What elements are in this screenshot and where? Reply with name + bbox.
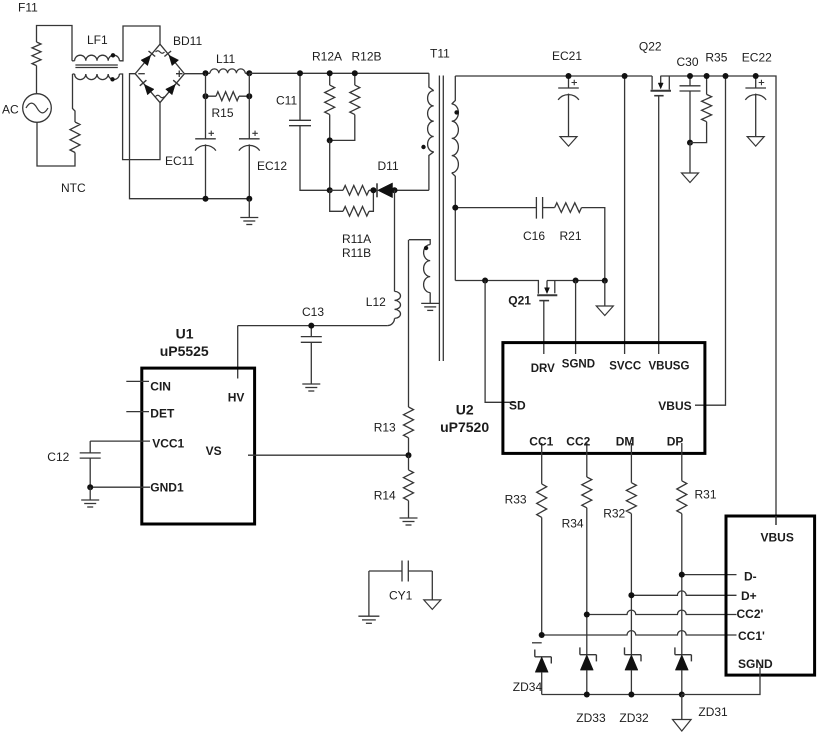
junction: [584, 692, 590, 698]
U2 pin DP: [681, 443, 683, 481]
wire Q21 rail: [455, 281, 538, 294]
svg-text:ZD32: ZD32: [619, 711, 649, 725]
svg-text:EC11: EC11: [165, 154, 194, 168]
ground (arrow) CY1: [431, 571, 433, 600]
svg-text:BD11: BD11: [173, 34, 202, 48]
AC source: [23, 94, 52, 123]
wire DC rail: [249, 72, 429, 74]
ground (earth) U1: [89, 487, 91, 500]
capacitor EC21: [568, 76, 570, 88]
resistor R21: [555, 203, 582, 213]
wire secondary rail: [455, 75, 652, 77]
junction: [327, 70, 333, 76]
junction: [679, 692, 685, 698]
capacitor EC12: [248, 73, 250, 139]
resistor R31: [677, 481, 687, 514]
svg-text:EC21: EC21: [552, 49, 582, 63]
transistor Q21: [546, 281, 548, 288]
svg-text:VCC1: VCC1: [152, 437, 184, 451]
wire SGND: [575, 281, 577, 355]
svg-text:Q21: Q21: [508, 294, 531, 308]
svg-text:VS: VS: [206, 444, 222, 458]
svg-text:U2: U2: [456, 401, 474, 417]
U2 pin CC1: [541, 443, 543, 484]
svg-text:uP7520: uP7520: [440, 419, 489, 435]
junction: [406, 452, 412, 458]
svg-text:R13: R13: [374, 421, 396, 435]
inductor L11: [206, 72, 211, 74]
svg-text:uP5525: uP5525: [160, 343, 209, 359]
svg-text:C11: C11: [276, 94, 297, 108]
resistor R15: [216, 92, 239, 101]
svg-text:R15: R15: [212, 106, 234, 120]
junction: [246, 196, 252, 202]
bridge rectifier BD11: [135, 44, 184, 102]
svg-text:C30: C30: [677, 55, 699, 69]
junction: [723, 73, 729, 79]
wire SGND return: [682, 667, 760, 695]
svg-text:DM: DM: [616, 435, 635, 449]
wire: [37, 122, 75, 166]
svg-text:R12B: R12B: [352, 50, 382, 64]
wire D-: [682, 574, 737, 576]
wire CC2': [587, 610, 737, 614]
wire: [184, 73, 205, 75]
svg-text:C16: C16: [523, 229, 545, 243]
resistor R11A: [330, 189, 343, 191]
wire SVCC: [624, 76, 626, 354]
svg-text:EC12: EC12: [257, 159, 287, 173]
svg-text:C13: C13: [302, 305, 324, 319]
capacitor C30: [689, 76, 691, 86]
connector pin VBUS: [775, 516, 777, 525]
resistor R32: [626, 483, 636, 514]
svg-text:R14: R14: [374, 488, 396, 502]
capacitor C12: [89, 441, 91, 453]
junction: [584, 612, 590, 618]
capacitor CY1: [369, 570, 432, 572]
svg-text:R31: R31: [695, 488, 717, 502]
svg-text:CC1': CC1': [738, 629, 765, 643]
capacitor C16: [536, 197, 542, 219]
inductor L12: [394, 190, 396, 291]
wire CC1': [542, 631, 737, 635]
resistor R33: [537, 484, 547, 518]
junction: [687, 140, 693, 146]
op-amp U2 uP7520 box: [503, 343, 705, 454]
junction: [704, 73, 710, 79]
wire: [36, 66, 38, 94]
wire: [238, 325, 388, 327]
capacitor EC22: [755, 76, 757, 88]
wire Q21 right: [547, 280, 605, 282]
svg-text:R34: R34: [562, 517, 584, 531]
junction: [370, 187, 376, 193]
svg-text:GND1: GND1: [150, 481, 184, 495]
svg-text:EC22: EC22: [742, 50, 772, 64]
svg-text:L12: L12: [366, 295, 386, 309]
capacitor C13: [310, 326, 312, 337]
svg-text:R21: R21: [560, 229, 582, 243]
junction: [246, 93, 252, 99]
svg-text:R12A: R12A: [312, 50, 342, 64]
junction: [392, 187, 398, 193]
svg-text:SGND: SGND: [562, 359, 595, 371]
svg-text:SD: SD: [509, 399, 526, 413]
thermistor NTC: [70, 122, 80, 153]
junction: [327, 137, 333, 143]
resistor R14: [408, 455, 410, 470]
junction: [753, 73, 759, 79]
svg-text:R35: R35: [705, 50, 727, 64]
resistor R35: [706, 76, 708, 94]
zener diode ZD31: [675, 654, 692, 656]
junction: [687, 73, 693, 79]
wire output rail: [660, 76, 776, 525]
capacitor C11: [299, 73, 301, 120]
svg-text:NTC: NTC: [61, 181, 86, 195]
svg-text:SGND: SGND: [738, 657, 773, 671]
svg-text:ZD31: ZD31: [698, 705, 728, 719]
resistor R34: [582, 477, 592, 508]
junction: [539, 632, 545, 638]
svg-text:CC2': CC2': [737, 607, 764, 621]
svg-text:CC2: CC2: [566, 435, 590, 449]
svg-text:R32: R32: [603, 507, 625, 521]
wire VBUS sense: [695, 76, 726, 405]
junction: [203, 196, 209, 202]
ground (arrow) output: [681, 695, 683, 720]
junction: [679, 572, 685, 578]
zener diode ZD32: [625, 654, 642, 656]
wire zener rail: [542, 694, 682, 696]
capacitor EC11: [205, 73, 207, 139]
op-amp U1 uP5525 box: [142, 368, 255, 524]
diode D11: [376, 183, 378, 197]
svg-text:R33: R33: [505, 493, 527, 507]
junction: [203, 70, 209, 76]
svg-text:AC: AC: [2, 103, 19, 117]
junction: [308, 323, 314, 329]
svg-text:VBUS: VBUS: [761, 531, 794, 545]
transformer T11 secondary winding: [452, 76, 456, 104]
svg-text:ZD33: ZD33: [576, 711, 606, 725]
svg-text:VBUSG: VBUSG: [649, 361, 690, 373]
svg-text:DET: DET: [150, 407, 175, 421]
transistor Q22: [651, 76, 653, 90]
connector box: [726, 516, 815, 675]
U1 pin VCC1: [90, 440, 150, 442]
junction: [628, 592, 634, 598]
fuse F11: [32, 42, 41, 66]
wire: [130, 74, 251, 199]
ground (earth) R14: [400, 517, 418, 519]
junction: [327, 187, 333, 193]
junction: [297, 70, 303, 76]
resistor R11B: [330, 190, 343, 211]
transformer T11 auxiliary winding: [409, 240, 430, 245]
svg-text:CC1: CC1: [529, 435, 553, 449]
junction: [203, 93, 209, 99]
wire SD: [485, 281, 515, 403]
svg-text:VBUS: VBUS: [658, 399, 691, 413]
junction: [566, 73, 572, 79]
junction: [452, 205, 458, 211]
svg-text:D11: D11: [378, 159, 399, 173]
junction: [246, 70, 252, 76]
resistor R12B: [354, 73, 356, 85]
ground (arrow) C30: [689, 143, 691, 173]
U1 pin GND1: [90, 486, 150, 488]
U2 pin DM: [630, 443, 632, 483]
zener diode ZD34: [532, 642, 542, 644]
transformer T11 primary winding: [429, 73, 434, 90]
resistor R12A: [329, 73, 331, 85]
svg-text:Q22: Q22: [639, 39, 662, 53]
junction: [573, 278, 579, 284]
zener diode ZD33: [580, 654, 597, 656]
svg-text:LF1: LF1: [87, 33, 108, 47]
U2 pin CC2: [586, 443, 588, 477]
svg-text:DRV: DRV: [531, 363, 555, 375]
svg-text:CY1: CY1: [389, 589, 413, 603]
svg-text:D+: D+: [741, 589, 757, 603]
wire D+: [631, 591, 736, 595]
svg-text:U1: U1: [176, 326, 194, 342]
wire snubber: [455, 207, 536, 209]
svg-text:HV: HV: [228, 391, 245, 405]
junction: [602, 278, 608, 284]
svg-text:CIN: CIN: [150, 380, 171, 394]
wire: [37, 26, 73, 61]
U1 pin VS: [248, 454, 409, 456]
junction: [87, 484, 93, 490]
common-mode choke LF1: [72, 60, 75, 62]
ground (earth) CY1: [368, 571, 370, 616]
svg-text:R11B: R11B: [342, 246, 371, 260]
svg-text:L11: L11: [216, 52, 235, 66]
junction: [622, 73, 628, 79]
junction: [482, 278, 488, 284]
transformer T11 core: [439, 76, 443, 362]
svg-text:T11: T11: [430, 47, 450, 61]
svg-text:SVCC: SVCC: [609, 361, 641, 373]
wire: [73, 74, 76, 122]
wire: [237, 326, 239, 379]
svg-text:R11A: R11A: [342, 232, 371, 246]
U1 pin DET: [126, 411, 149, 413]
svg-text:C12: C12: [47, 450, 69, 464]
svg-text:ZD34: ZD34: [513, 680, 543, 694]
U1 pin CIN: [126, 380, 149, 382]
ground (earth) primary: [248, 199, 250, 218]
svg-text:D-: D-: [744, 570, 757, 584]
ground (arrow) R21: [604, 281, 606, 306]
resistor R13: [408, 240, 410, 407]
wire: [329, 140, 331, 190]
junction: [352, 70, 358, 76]
junction: [628, 692, 634, 698]
svg-text:DP: DP: [667, 435, 684, 449]
svg-text:F11: F11: [18, 1, 38, 15]
